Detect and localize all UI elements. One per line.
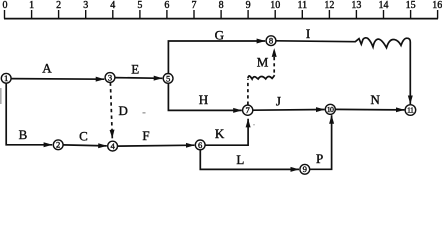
- node 4: [108, 141, 118, 151]
- activity H arrow 5->7 (down then right): [168, 83, 241, 110]
- svg-text:8: 8: [219, 0, 224, 11]
- svg-text:3: 3: [83, 0, 88, 11]
- svg-text:K: K: [215, 126, 225, 141]
- svg-text:M: M: [257, 54, 269, 69]
- node 3: [105, 73, 115, 83]
- svg-text:11: 11: [297, 0, 307, 11]
- svg-text:12: 12: [324, 0, 334, 11]
- node 6: [195, 140, 205, 150]
- dummy M dashed leg up from node 7: [247, 79, 249, 105]
- node 2: [53, 140, 63, 150]
- svg-text:H: H: [199, 92, 208, 107]
- svg-text:A: A: [42, 61, 52, 76]
- ruler numbers: [3, 0, 442, 11]
- svg-text:D: D: [119, 103, 128, 118]
- svg-text:1: 1: [4, 73, 8, 83]
- ruler ticks 0-16: [5, 10, 438, 19]
- svg-text:G: G: [215, 28, 224, 43]
- activity J arrow 7->10: [253, 109, 325, 112]
- svg-text:6: 6: [164, 0, 169, 11]
- activity F arrow 4->6: [118, 144, 195, 147]
- svg-text:B: B: [19, 127, 28, 142]
- dummy M dashed arrow into node 8: [273, 48, 275, 72]
- svg-text:4: 4: [110, 141, 115, 151]
- svg-text:16: 16: [432, 0, 442, 11]
- activity P arrow 9->10 (right then up): [310, 115, 332, 169]
- svg-text:N: N: [371, 92, 381, 107]
- node 10: [325, 104, 335, 114]
- svg-text:L: L: [236, 152, 244, 167]
- svg-text:4: 4: [110, 0, 115, 11]
- svg-text:5: 5: [137, 0, 142, 11]
- svg-text:0: 0: [3, 0, 8, 11]
- node 7: [243, 105, 253, 115]
- activity A arrow 1->3: [11, 78, 104, 81]
- svg-text:1: 1: [29, 0, 34, 11]
- svg-text:2: 2: [56, 140, 60, 150]
- svg-text:I: I: [306, 26, 310, 41]
- svg-text:F: F: [142, 128, 149, 143]
- timescale ruler baseline: [4, 18, 438, 20]
- node 5: [163, 74, 173, 84]
- svg-text:8: 8: [269, 36, 273, 46]
- node 1: [1, 73, 11, 83]
- activity G arrow 5->8 (up then right): [168, 41, 265, 73]
- svg-text:10: 10: [327, 105, 334, 114]
- node 11: [405, 105, 416, 116]
- svg-text:E: E: [131, 61, 139, 76]
- svg-text:6: 6: [198, 140, 203, 150]
- svg-text:3: 3: [108, 72, 112, 82]
- svg-text:9: 9: [303, 164, 307, 174]
- activity E arrow 3->5: [115, 77, 162, 80]
- svg-text:11: 11: [407, 106, 414, 115]
- activity C arrow 2->4: [63, 145, 107, 146]
- svg-text:2: 2: [56, 0, 61, 11]
- activity K arrow 6->7 (right then up): [205, 119, 248, 145]
- svg-text:13: 13: [351, 0, 361, 11]
- svg-text:P: P: [316, 151, 323, 166]
- node 8: [266, 36, 276, 46]
- svg-text:J: J: [276, 93, 281, 108]
- svg-text:C: C: [79, 128, 88, 143]
- dummy M float coil: [248, 75, 275, 79]
- svg-text:15: 15: [406, 0, 416, 11]
- scan specks: [0, 88, 255, 125]
- svg-text:7: 7: [246, 105, 251, 115]
- svg-text:10: 10: [270, 0, 280, 11]
- svg-text:7: 7: [192, 0, 197, 11]
- svg-text:9: 9: [246, 0, 251, 11]
- svg-text:5: 5: [166, 73, 170, 83]
- activity B arrow 1->2 (down then right): [6, 83, 52, 145]
- activity I line 8->11 with float coil, corner and down arrow: [276, 38, 410, 104]
- activity L arrow 6->9 (down then right): [200, 150, 299, 170]
- node 9: [300, 164, 310, 174]
- dummy D dashed arrow 3->4: [110, 83, 112, 139]
- activity N arrow 10->11: [335, 108, 404, 111]
- activity labels: [19, 26, 381, 167]
- svg-text:14: 14: [379, 0, 389, 11]
